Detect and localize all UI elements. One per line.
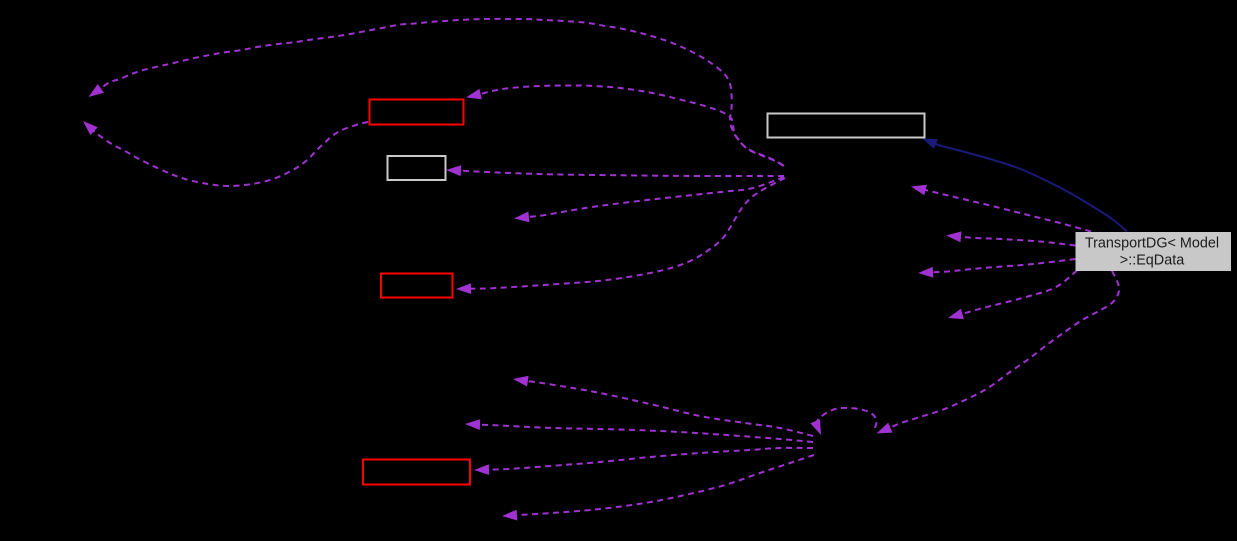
edge hub1 to red box R2	[456, 178, 785, 294]
node TransportDG EqData (current, gray)	[1076, 232, 1232, 271]
edge hub2 to node at (502,516)	[502, 455, 814, 521]
svg-text:TransportDG< Model: TransportDG< Model	[1085, 236, 1219, 252]
edge hub1 to white box W2	[446, 165, 784, 176]
edge EqData to hub2 (long right curve)	[877, 271, 1120, 434]
svg-text:>::EqData: >::EqData	[1120, 253, 1184, 269]
edge hub2 to node at (465,424)	[465, 419, 813, 442]
node red box R2	[381, 274, 453, 298]
edge hub1 to red box R1	[466, 85, 784, 166]
edge hub1 to mid-left node	[514, 177, 784, 222]
node white box W2	[388, 156, 446, 180]
edge hub2 to node at (513,379)	[513, 376, 813, 436]
node red box R3	[363, 460, 470, 485]
edge EqData to node D	[948, 271, 1077, 320]
edge arc between hub2 nodes	[810, 408, 876, 435]
edge EqData to node B	[946, 231, 1076, 245]
edge red box R1 to far-left node 2 (swoop)	[83, 121, 368, 186]
node red box R1	[370, 100, 464, 125]
edge EqData to node C	[918, 259, 1076, 278]
edge hub1 to far-left node (top long curve)	[89, 19, 784, 165]
node white box W1	[768, 114, 925, 138]
edge hub2 to red box R3	[474, 448, 813, 475]
edge EqData to node A	[911, 185, 1091, 232]
edge EqData to white box W1 (solid blue inheritance)	[922, 139, 1127, 232]
